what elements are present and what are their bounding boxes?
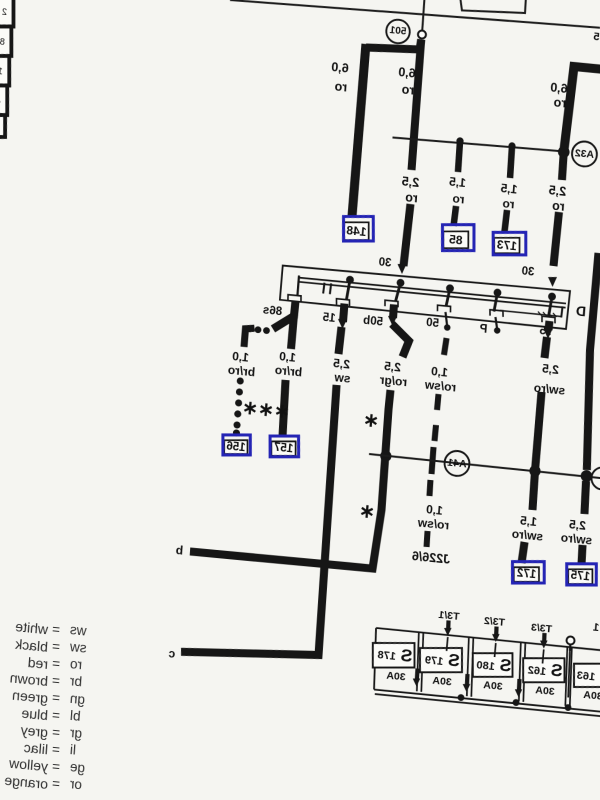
svg-text:30A: 30A <box>535 684 556 698</box>
svg-text:red: red <box>27 654 48 672</box>
svg-text:sw/ro: sw/ro <box>560 531 592 548</box>
svg-text:ge: ge <box>69 759 85 775</box>
svg-text:=: = <box>51 690 60 706</box>
svg-text:lilac: lilac <box>23 739 48 757</box>
svg-text:T3/3: T3/3 <box>530 621 552 635</box>
svg-text:1,5: 1,5 <box>519 513 537 529</box>
svg-text:S: S <box>447 650 460 671</box>
svg-text:178: 178 <box>377 649 396 663</box>
svg-text:∗: ∗ <box>358 501 375 523</box>
svg-text:30A: 30A <box>432 675 453 689</box>
svg-text:2: 2 <box>2 7 8 17</box>
svg-text:S: S <box>499 654 512 675</box>
svg-text:=: = <box>51 656 60 672</box>
svg-text:blue: blue <box>21 705 49 724</box>
svg-text:D: D <box>575 303 586 320</box>
svg-text:sw/ro: sw/ro <box>511 527 543 544</box>
svg-text:175: 175 <box>570 570 591 584</box>
svg-text:ro: ro <box>69 656 82 672</box>
svg-text:50: 50 <box>426 317 440 330</box>
svg-text:15: 15 <box>322 312 336 325</box>
svg-text:green: green <box>12 687 49 706</box>
svg-text:30A: 30A <box>483 679 504 693</box>
svg-text:6,0: 6,0 <box>331 60 349 76</box>
svg-text:30A: 30A <box>583 689 600 703</box>
svg-text:148: 148 <box>346 223 367 239</box>
svg-text:6,0: 6,0 <box>398 65 416 81</box>
svg-text:ro: ro <box>401 82 415 97</box>
svg-text:P: P <box>479 323 488 336</box>
svg-text:=: = <box>51 776 60 792</box>
svg-text:173: 173 <box>496 238 517 254</box>
svg-text:30: 30 <box>378 256 392 269</box>
svg-text:gn: gn <box>69 691 85 707</box>
svg-text:white: white <box>15 618 50 637</box>
svg-text:75: 75 <box>593 31 600 44</box>
svg-text:orange: orange <box>4 772 49 792</box>
svg-text:ws: ws <box>69 622 88 639</box>
svg-text:1,5: 1,5 <box>500 181 518 197</box>
svg-text:bl: bl <box>69 708 81 724</box>
svg-text:180: 180 <box>476 659 495 673</box>
svg-text:ro: ro <box>551 198 565 213</box>
svg-text:2,5: 2,5 <box>401 174 419 190</box>
svg-text:8: 8 <box>0 36 5 46</box>
svg-text:ro: ro <box>334 79 348 94</box>
svg-text:2,5: 2,5 <box>541 361 559 377</box>
svg-text:ro: ro <box>502 196 515 211</box>
svg-text:1,5: 1,5 <box>448 174 466 190</box>
svg-text:1,0: 1,0 <box>425 502 443 518</box>
svg-text:br: br <box>69 673 83 689</box>
svg-text:6,0: 6,0 <box>550 80 568 96</box>
svg-text:162: 162 <box>527 664 546 678</box>
svg-text:ro: ro <box>553 95 567 110</box>
svg-text:S: S <box>550 660 563 681</box>
svg-text:gr: gr <box>69 725 83 741</box>
svg-text:501: 501 <box>389 25 407 38</box>
svg-text:=: = <box>51 622 60 638</box>
svg-text:sw: sw <box>69 639 87 656</box>
svg-text:156: 156 <box>226 440 246 454</box>
svg-text:br/ro: br/ro <box>274 363 302 380</box>
svg-text:sw: sw <box>333 370 351 386</box>
svg-text:A41: A41 <box>447 457 467 471</box>
svg-text:1: 1 <box>593 622 600 635</box>
svg-text:S: S <box>400 645 413 666</box>
svg-text:172: 172 <box>516 568 536 582</box>
svg-text:black: black <box>14 635 49 654</box>
svg-text:li: li <box>69 742 76 758</box>
svg-text:ro/gr: ro/gr <box>379 373 408 390</box>
svg-text:86s: 86s <box>262 305 282 319</box>
svg-text:50b: 50b <box>363 315 384 329</box>
svg-text:=: = <box>51 759 60 775</box>
svg-text:grey: grey <box>20 722 48 741</box>
svg-text:30: 30 <box>521 265 535 278</box>
svg-text:ro: ro <box>404 190 418 205</box>
svg-text:30A: 30A <box>386 670 407 684</box>
svg-text:=: = <box>51 639 60 655</box>
svg-text:157: 157 <box>273 442 293 456</box>
svg-text:or: or <box>69 776 83 792</box>
svg-text:ro: ro <box>452 191 465 206</box>
svg-text:163: 163 <box>576 669 595 683</box>
svg-text:ro/sw: ro/sw <box>417 515 450 532</box>
svg-text:2,5: 2,5 <box>548 183 566 199</box>
svg-text:A32: A32 <box>574 147 594 161</box>
svg-text:85: 85 <box>448 232 463 247</box>
svg-text:∗∗∗: ∗∗∗ <box>241 397 290 423</box>
svg-text:ro/sw: ro/sw <box>424 377 457 394</box>
svg-text:c: c <box>168 646 176 661</box>
svg-text:∗: ∗ <box>362 410 379 432</box>
svg-text:J226/6: J226/6 <box>411 549 450 567</box>
svg-text:br/ro: br/ro <box>227 363 255 380</box>
svg-text:b: b <box>175 543 183 558</box>
svg-text:=: = <box>51 725 60 741</box>
svg-text:T3/2: T3/2 <box>483 615 505 629</box>
svg-text:=: = <box>51 673 60 689</box>
svg-text:=: = <box>51 707 60 723</box>
svg-text:=: = <box>51 742 60 758</box>
svg-text:179: 179 <box>424 654 443 668</box>
